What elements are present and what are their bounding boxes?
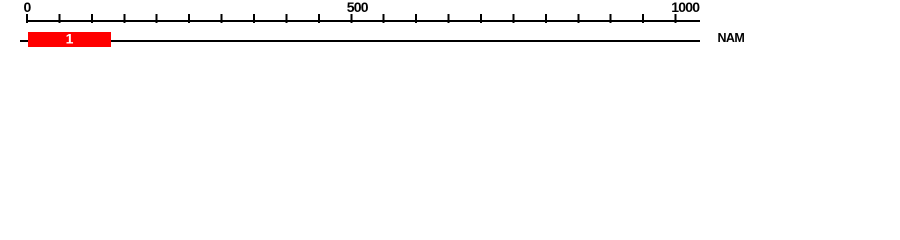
tick 600 <box>415 14 417 23</box>
tick 150 <box>123 14 125 23</box>
tick 200 <box>156 14 158 23</box>
tick 1000 <box>675 14 677 23</box>
tick 650 <box>448 14 450 23</box>
tick 300 <box>221 14 223 23</box>
tick 0 <box>26 14 28 23</box>
tick 800 <box>545 14 547 23</box>
ruler ticks every 50 units <box>27 14 676 23</box>
background <box>0 0 900 58</box>
ruler baseline <box>26 20 700 22</box>
tick 400 <box>285 14 287 23</box>
tick 450 <box>318 14 320 23</box>
svg-text:NAM: NAM <box>718 31 745 45</box>
sequence feature map: scale ruler (0-1000) over feature line with NAM domain <box>0 0 900 58</box>
tick 950 <box>642 14 644 23</box>
svg-text:1: 1 <box>66 31 74 47</box>
tick 250 <box>188 14 190 23</box>
svg-text:1000: 1000 <box>671 0 700 15</box>
svg-text:0: 0 <box>24 0 32 15</box>
tick 850 <box>577 14 579 23</box>
tick 900 <box>610 14 612 23</box>
tick 350 <box>253 14 255 23</box>
tick 750 <box>513 14 515 23</box>
svg-text:500: 500 <box>347 0 369 15</box>
tick 500 <box>350 14 352 23</box>
domain box 1 (red) <box>28 32 111 47</box>
tick 550 <box>383 14 385 23</box>
tick 700 <box>480 14 482 23</box>
feature line (sequence backbone) <box>20 40 700 42</box>
tick 50 <box>58 14 60 23</box>
tick 100 <box>91 14 93 23</box>
